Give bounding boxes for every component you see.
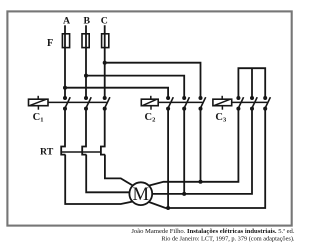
contact C3 middle: [250, 96, 257, 111]
fuse F phase A: [62, 34, 69, 48]
wire RT phase C to motor upper-left: [105, 155, 133, 186]
contact C3 right: [263, 96, 270, 111]
star bus of C3: [238, 68, 265, 98]
fuse F phase C: [102, 34, 109, 48]
wire motor upper-right to C3 left contact: [149, 109, 239, 186]
wire motor lower-right to C3 right contact: [149, 109, 266, 208]
wire C2 middle output down: [183, 109, 185, 194]
wire through fuse C: [104, 33, 106, 48]
wire feeder A to C2 left contact: [65, 88, 168, 98]
node tap B: [84, 74, 88, 78]
thermal element RT phase A: [61, 109, 65, 155]
node C2 middle output joins motor wire: [182, 192, 186, 196]
fuse F phase B: [82, 34, 89, 48]
svg-text:Rio de Janeiro: LCT, 1997, p.: Rio de Janeiro: LCT, 1997, p. 379 (com a…: [161, 235, 295, 242]
wire C2 left output down: [167, 109, 169, 208]
svg-text:C: C: [101, 15, 108, 26]
contact C1 phase A: [63, 96, 70, 111]
wire C2 right output down: [200, 109, 202, 182]
motor M circle: [129, 182, 152, 205]
svg-text:F: F: [47, 38, 53, 49]
node C2 right output joins motor wire: [199, 180, 203, 184]
linkage C1: [48, 101, 107, 103]
wire through fuse B: [85, 33, 87, 48]
wire phase B vertical: [85, 25, 87, 98]
wire through fuse A: [64, 33, 66, 48]
thermal element RT phase B: [82, 109, 86, 155]
wire C3 middle contact feed: [251, 68, 253, 98]
svg-text:João Mamede Filho. Instalações: João Mamede Filho. Instalações elétricas…: [131, 228, 295, 235]
svg-text:M: M: [133, 184, 150, 205]
contact C2 left: [166, 96, 173, 111]
wire RT phase B to motor left: [86, 155, 129, 193]
contactor C3 coil symbol: [213, 96, 232, 110]
node C2 left output joins motor wire: [166, 206, 170, 210]
svg-text:RT: RT: [40, 147, 54, 158]
node tap C: [103, 61, 107, 65]
wire feeder B to C2 middle contact: [86, 76, 184, 98]
linkage C2: [158, 101, 202, 103]
contact C1 phase C: [103, 96, 110, 111]
linkage C3: [232, 101, 268, 103]
contactor C1 coil symbol: [29, 96, 49, 110]
wire RT phase A to motor lower-left: [65, 155, 133, 204]
node tap A: [63, 86, 67, 90]
RT linkage: [61, 151, 101, 153]
contact C2 middle: [182, 96, 189, 111]
wire phase A vertical: [64, 25, 66, 98]
wire motor right to C3 middle contact: [152, 109, 252, 194]
contact C3 left: [236, 96, 243, 111]
svg-text:B: B: [84, 15, 91, 26]
contact C1 phase B: [84, 96, 91, 111]
contactor C2 coil symbol: [141, 96, 158, 110]
contact C2 right: [199, 96, 206, 111]
svg-text:A: A: [63, 15, 70, 26]
wire feeder C to C2 right contact: [105, 63, 201, 98]
thermal element RT phase C: [101, 109, 105, 155]
wire phase C vertical: [104, 25, 106, 98]
